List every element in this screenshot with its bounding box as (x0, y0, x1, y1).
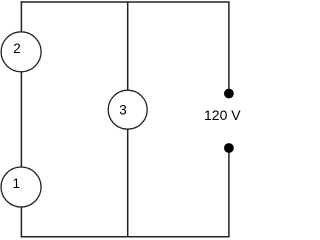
svg-text:3: 3 (119, 103, 127, 118)
svg-text:2: 2 (13, 41, 21, 56)
svg-text:1: 1 (13, 176, 21, 191)
svg-text:120 V: 120 V (204, 107, 241, 123)
